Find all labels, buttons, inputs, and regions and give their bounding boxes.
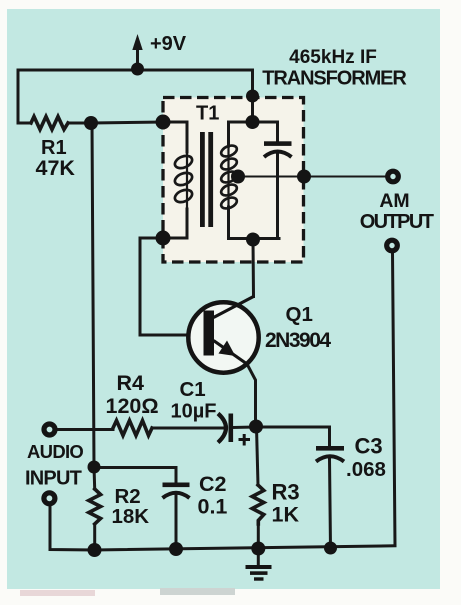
svg-text:R4: R4 (117, 371, 145, 395)
svg-text:INPUT: INPUT (25, 468, 82, 490)
svg-text:TRANSFORMER: TRANSFORMER (262, 68, 407, 90)
svg-text:10µF: 10µF (171, 401, 217, 423)
svg-text:1K: 1K (272, 503, 300, 527)
svg-text:120Ω: 120Ω (106, 394, 159, 418)
svg-text:OUTPUT: OUTPUT (360, 211, 434, 233)
svg-text:+9V: +9V (150, 33, 187, 55)
svg-text:18K: 18K (112, 505, 150, 528)
svg-text:C3: C3 (355, 434, 383, 459)
svg-text:AM: AM (379, 190, 409, 212)
svg-text:465kHz IF: 465kHz IF (289, 47, 377, 68)
svg-text:2N3904: 2N3904 (265, 329, 331, 352)
svg-text:.068: .068 (346, 458, 386, 481)
svg-text:R3: R3 (272, 480, 300, 505)
svg-text:C1: C1 (180, 378, 206, 401)
svg-text:Q1: Q1 (286, 303, 313, 326)
svg-text:T1: T1 (196, 103, 219, 125)
svg-text:47K: 47K (36, 156, 76, 180)
svg-text:C2: C2 (199, 472, 227, 496)
svg-text:AUDIO: AUDIO (27, 441, 83, 462)
svg-text:0.1: 0.1 (198, 495, 228, 519)
